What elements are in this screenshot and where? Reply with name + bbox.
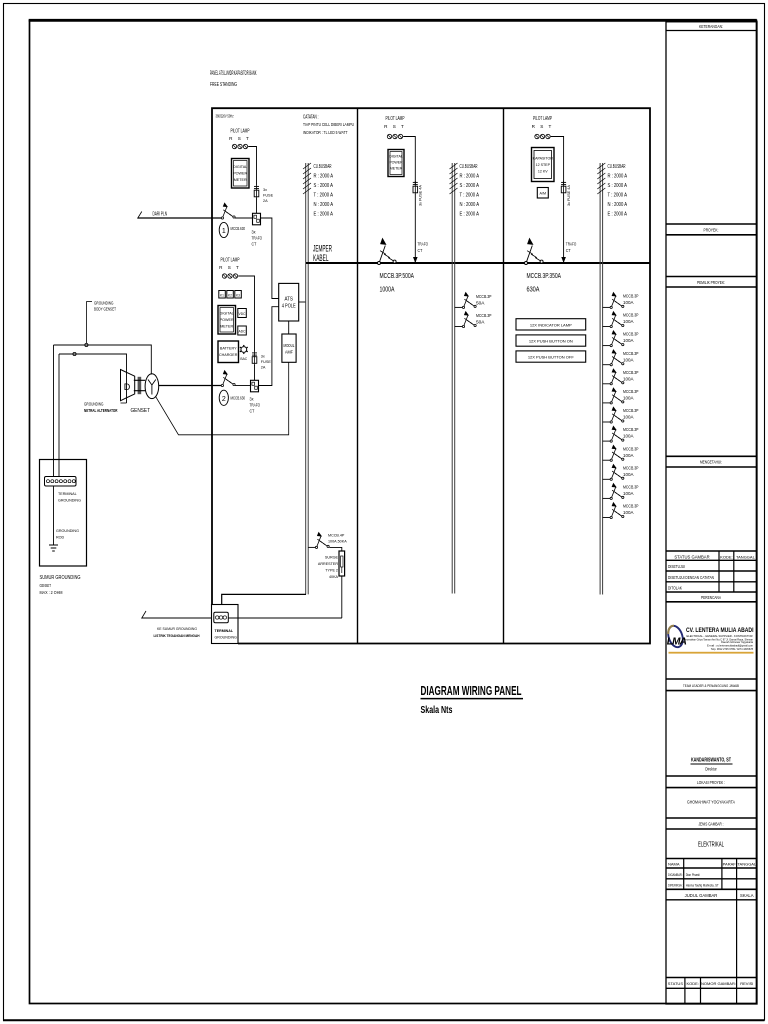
A/M selector box [537, 188, 548, 199]
svg-text:T : 2000 A: T : 2000 A [314, 192, 334, 198]
breaker MCCB.3P 100A no4 [610, 349, 624, 366]
label 100A no9 [623, 446, 639, 458]
svg-text:GHOMAHWAT YOGYAKARTA: GHOMAHWAT YOGYAKARTA [687, 800, 735, 805]
feeder stub 100A no9 [603, 459, 610, 461]
pilot lamp 2 [222, 274, 237, 278]
numbered node 1 [219, 222, 245, 237]
terminal grounding label genset [58, 492, 81, 503]
svg-text:NETRAL ALTERNATOR: NETRAL ALTERNATOR [84, 408, 118, 413]
svg-text:PILOT LAMP: PILOT LAMP [386, 116, 405, 122]
panel enclosure box [212, 108, 650, 643]
svg-text:PROYEK:: PROYEK: [704, 228, 719, 233]
breaker MCCB.3P 100A no7 [610, 406, 624, 423]
trafo CT label right [566, 241, 577, 253]
svg-text:12X PUSH BUTTON OFF: 12X PUSH BUTTON OFF [528, 355, 574, 360]
pilot lamp 4 labels [532, 116, 554, 129]
svg-text:R : 2000 A: R : 2000 A [608, 173, 628, 179]
fuse F1 [254, 185, 259, 199]
svg-text:50A: 50A [476, 320, 485, 325]
busbar left label CU.BUSBAR [314, 164, 334, 218]
svg-text:JUDUL GAMBAR: JUDUL GAMBAR [685, 893, 718, 898]
svg-text:GROUNDING: GROUNDING [56, 529, 79, 533]
genset coupling [134, 377, 145, 394]
svg-text:DIGAMBAR:: DIGAMBAR: [668, 873, 683, 877]
svg-text:GROUNDING: GROUNDING [94, 300, 114, 305]
svg-text:KABEL: KABEL [313, 253, 329, 263]
svg-text:MCCB.3P: MCCB.3P [623, 504, 639, 509]
breaker MCCB.3P.500A label [380, 271, 415, 294]
breaker MCCB.4P surge [315, 532, 329, 549]
svg-text:DARI PLN: DARI PLN [153, 211, 168, 217]
breaker MCCB.3P 100A no10 [610, 464, 624, 481]
svg-text:100A: 100A [623, 300, 634, 305]
svg-text:GENSET: GENSET [40, 583, 52, 588]
svg-text:TRAFO: TRAFO [252, 236, 263, 241]
signature name KANDARISWANTO [691, 758, 733, 772]
label 50A no1 [476, 294, 492, 306]
breaker MCCB.3P 100A no8 [610, 426, 624, 443]
breaker MCCB.3P.350A label [527, 271, 562, 294]
breaker MCCB 2 genset [221, 370, 235, 387]
genset feed wire [159, 385, 223, 387]
svg-text:CV. LENTERA MULIA ABADI: CV. LENTERA MULIA ABADI [686, 627, 754, 634]
PROYEK header band [666, 224, 757, 235]
svg-text:TYPE 2: TYPE 2 [325, 569, 338, 573]
svg-text:METER: METER [220, 325, 233, 329]
svg-text:S : 2000 A: S : 2000 A [608, 183, 628, 189]
svg-text:MCCB.630: MCCB.630 [231, 226, 246, 231]
svg-text:PARAF: PARAF [723, 862, 737, 867]
wire lamp4 down to bus [551, 137, 564, 186]
PLN arrow tick [138, 212, 142, 219]
breaker MCCB.3P 100A no1 [610, 292, 624, 309]
busbar mid hatching [450, 163, 458, 194]
jenis value ELEKTRIKAL [698, 841, 724, 848]
company logo CV LENTERA MULIA ABADI [666, 624, 754, 654]
feeder stub 100A no7 [603, 421, 610, 423]
MENGETAHUI header band [666, 456, 757, 467]
svg-text:ATS: ATS [284, 297, 293, 303]
breaker MCCB.3P 100A no9 [610, 445, 624, 462]
svg-text:DIPERIKSA:: DIPERIKSA: [668, 883, 683, 887]
svg-text:Telp. 0812 2745 6789 / 0274 43: Telp. 0812 2745 6789 / 0274 4345678 [711, 648, 754, 651]
svg-text:JENIS GAMBAR :: JENIS GAMBAR : [699, 822, 724, 827]
lokasi value box [687, 800, 735, 805]
feeder stub 100A no5 [603, 383, 610, 385]
svg-text:3x FUSE 4A: 3x FUSE 4A [567, 185, 571, 206]
svg-text:KODE:: KODE: [686, 981, 698, 986]
feeder stub 100A no3 [603, 345, 610, 347]
wire fuse3 to bus junction [414, 195, 416, 264]
svg-text:100A: 100A [623, 415, 634, 420]
svg-text:KE SUMUR GROUNDING: KE SUMUR GROUNDING [157, 627, 197, 631]
svg-text:DIAGRAM WIRING PANEL: DIAGRAM WIRING PANEL [421, 683, 522, 698]
svg-text:JEMPER: JEMPER [313, 244, 332, 254]
svg-text:BAC: BAC [240, 357, 247, 361]
ke sumur grounding wire [142, 617, 342, 619]
svg-text:3x: 3x [261, 355, 265, 359]
svg-text:100A: 100A [623, 357, 634, 362]
svg-text:100A.50KA: 100A.50KA [328, 540, 347, 544]
svg-text:MCCB.3P: MCCB.3P [623, 446, 639, 451]
svg-text:STATUS GAMBAR: STATUS GAMBAR [674, 554, 709, 559]
svg-text:N : 2000 A: N : 2000 A [314, 202, 334, 208]
ATS to AMF connector [288, 321, 290, 334]
relay K2 [227, 291, 234, 299]
svg-text:SURGE: SURGE [325, 556, 339, 560]
svg-text:100A: 100A [623, 376, 634, 381]
svg-text:D: D [124, 382, 131, 392]
svg-text:TERMINAL: TERMINAL [215, 629, 234, 633]
svg-text:MCCB.3P: MCCB.3P [623, 351, 639, 356]
svg-text:3x: 3x [263, 188, 267, 192]
label 100A no11 [623, 485, 639, 497]
svg-text:CT: CT [418, 248, 423, 253]
fuse F2 [252, 352, 257, 366]
svg-text:MCCB.3P: MCCB.3P [623, 408, 639, 413]
svg-text:AMF: AMF [285, 349, 293, 354]
breaker MCCB.3P 100A no2 [610, 311, 624, 328]
grounding bus wire 2 [59, 354, 127, 403]
feeder stub 100A no2 [603, 326, 610, 328]
svg-text:MCCB.3P: MCCB.3P [623, 370, 639, 375]
feeder stub 50A no1 [455, 306, 463, 308]
svg-text:DIGITAL: DIGITAL [220, 312, 234, 316]
kapasitor bank controller box [532, 148, 555, 182]
svg-text:A/M: A/M [540, 192, 547, 196]
section divider 2 [503, 108, 505, 643]
svg-text:VDC: VDC [239, 312, 247, 316]
panel title text [210, 70, 257, 88]
ground drop wire B [58, 354, 60, 477]
svg-text:DIGITAL: DIGITAL [233, 165, 247, 169]
wire breaker2 to CT2 [235, 385, 251, 387]
svg-text:CU.BUSBAR: CU.BUSBAR [460, 164, 478, 170]
breaker MCCB.3P 50A no2 [462, 311, 476, 328]
fuse F1 label 3x FUSE 2A [263, 188, 274, 203]
svg-text:K3: K3 [236, 294, 240, 298]
busbar mid label CU.BUSBAR [460, 164, 480, 218]
svg-text:630A: 630A [527, 285, 540, 294]
svg-text:TRAFO: TRAFO [250, 403, 261, 408]
svg-text:NAMA: NAMA [668, 862, 680, 867]
JENIS GAMBAR header band [666, 818, 757, 829]
svg-text:1: 1 [222, 228, 226, 235]
svg-text:N : 2000 A: N : 2000 A [460, 202, 480, 208]
busbar right [600, 163, 603, 595]
junction arrow right [561, 257, 566, 263]
svg-text:CHARGER: CHARGER [219, 353, 238, 357]
junction arrow mid [413, 257, 418, 263]
svg-text:100A: 100A [623, 510, 634, 515]
label 100A no7 [623, 408, 639, 420]
fuse F2 label 3x FUSE 2A [261, 355, 272, 370]
svg-text:MCCB.3P: MCCB.3P [623, 313, 639, 318]
svg-text:ROD: ROD [56, 536, 65, 540]
AMF control wire to genset [156, 362, 289, 435]
wire lamp3 down to bus [403, 137, 415, 186]
svg-text:CT: CT [250, 409, 255, 414]
svg-text:R S T: R S T [219, 265, 241, 270]
svg-text:METER: METER [234, 178, 247, 182]
digital power meter 3 [388, 150, 404, 177]
svg-text:R S T: R S T [384, 124, 406, 129]
pilot lamp 3 [387, 134, 402, 138]
LOKASI PROYEK header band [666, 776, 757, 788]
PEMILIK PROYEK header band [666, 277, 757, 288]
feeder stub 100A no11 [603, 497, 610, 499]
AMF module box [282, 334, 296, 362]
svg-text:POWER: POWER [389, 161, 403, 165]
note CATATAN [303, 114, 354, 136]
TEAM LEADER header band [666, 679, 757, 691]
breaker MCCB 1 incoming [221, 202, 235, 219]
CT 1 [253, 213, 261, 225]
svg-text:POWER: POWER [220, 318, 234, 322]
svg-text:Dian Pinasti: Dian Pinasti [686, 873, 700, 877]
panel terminal strip [214, 612, 229, 623]
svg-text:BODY GENSET: BODY GENSET [94, 307, 116, 312]
ground drop wire A [53, 345, 55, 477]
CT 2 [251, 380, 259, 392]
busbar right label CU.BUSBAR [608, 164, 628, 218]
svg-text:TERMINAL: TERMINAL [58, 492, 77, 496]
junction node body [85, 343, 88, 346]
section divider 1 [357, 108, 359, 643]
label 50A no2 [476, 313, 492, 325]
STATUS KODE NOMOR REVISI table [666, 978, 757, 1005]
genset engine trapezoid [121, 370, 135, 401]
pilot lamp 3 labels [384, 116, 406, 129]
title block outer box [666, 22, 757, 1004]
svg-text:TANGGAL: TANGGAL [736, 554, 756, 559]
busbar left hatching [303, 163, 311, 194]
PERENCANA header band [666, 595, 757, 602]
svg-text:GENSET: GENSET [131, 408, 151, 414]
svg-text:ADC: ADC [239, 330, 247, 334]
svg-text:POWER: POWER [233, 172, 247, 176]
svg-text:MCCB.3P.500A: MCCB.3P.500A [380, 271, 415, 280]
grounding rod label [56, 529, 79, 540]
svg-text:TIAP PINTU CELL DIBERI LAMPU: TIAP PINTU CELL DIBERI LAMPU [303, 122, 354, 128]
svg-text:380/220V 50Hz: 380/220V 50Hz [216, 113, 234, 119]
svg-text:50A: 50A [476, 301, 485, 306]
svg-text:KETERANGAN:: KETERANGAN: [699, 24, 723, 29]
pilot lamp 1 labels [229, 129, 251, 142]
wire fuse1 to CT1 [256, 199, 258, 214]
ke sumur arrow tick [142, 611, 147, 619]
digital power meter 1 [232, 159, 250, 189]
panel terminal grounding box [212, 605, 239, 644]
breaker MCCB.3P 100A no12 [610, 502, 624, 519]
fuse F4 [561, 181, 566, 195]
numbered node 2 [219, 390, 245, 405]
breaker MCCB.3P 100A no11 [610, 483, 624, 500]
svg-text:Hanna Taufiq Mahkota, ST: Hanna Taufiq Mahkota, ST [686, 883, 719, 887]
svg-text:PERENCANA: PERENCANA [701, 595, 722, 600]
sumur grounding labels [40, 575, 81, 595]
wire breaker to surge arrester [329, 547, 341, 551]
label JEMPER KABEL [313, 244, 332, 264]
busbar right hatching [597, 163, 605, 194]
ground symbol [49, 545, 58, 551]
svg-text:E : 2000 A: E : 2000 A [314, 211, 334, 217]
svg-text:GROUNDING: GROUNDING [84, 401, 104, 406]
svg-text:TRAFO: TRAFO [418, 241, 429, 246]
wire lamp2 to fuse2 [238, 276, 254, 352]
JUDUL GAMBAR / SKALA header band [666, 889, 757, 977]
svg-text:R S T: R S T [532, 124, 554, 129]
svg-text:LOKASI PROYEK :: LOKASI PROYEK : [697, 780, 725, 785]
svg-text:MODUL: MODUL [284, 343, 295, 348]
busbar left [306, 163, 309, 594]
svg-text:MENGETAHUI:: MENGETAHUI: [700, 460, 722, 465]
STATUS GAMBAR table [666, 551, 757, 592]
svg-text:100A: 100A [623, 472, 634, 477]
feeder stub 100A no12 [603, 517, 610, 519]
wire fuse4 to bus junction [563, 195, 565, 264]
label 100A no3 [623, 332, 639, 344]
VDC meter box [238, 309, 247, 318]
fuse F3 [413, 181, 418, 195]
svg-text:LISTRIK TEGANGAN MENGAH: LISTRIK TEGANGAN MENGAH [154, 634, 200, 638]
breaker MCCB.3P 100A no5 [610, 368, 624, 385]
svg-text:PILOT LAMP: PILOT LAMP [221, 258, 240, 264]
svg-text:CT: CT [252, 242, 257, 247]
svg-text:12 KV: 12 KV [538, 170, 548, 174]
relay K3 [235, 291, 242, 299]
svg-text:CU.BUSBAR: CU.BUSBAR [608, 164, 626, 170]
drawing title DIAGRAM WIRING PANEL [421, 683, 524, 716]
surge arrester feed stub [308, 546, 316, 548]
label 100A no5 [623, 370, 639, 382]
svg-text:K1: K1 [220, 294, 224, 298]
ATS box [279, 283, 299, 321]
svg-text:KODE:: KODE: [720, 554, 732, 559]
feeder stub 100A no6 [603, 402, 610, 404]
svg-text:100A: 100A [623, 434, 634, 439]
svg-text:DITOLAK: DITOLAK [668, 585, 682, 590]
svg-text:R S T: R S T [229, 136, 251, 141]
feeder stub 100A no8 [603, 440, 610, 442]
svg-text:FUSE: FUSE [263, 194, 274, 198]
feeder stub 100A no4 [603, 364, 610, 366]
svg-text:CATATAN :: CATATAN : [303, 114, 319, 120]
label 100A no10 [623, 465, 639, 477]
svg-text:TEAM LEADER & PENANGGUNG JAWAB: TEAM LEADER & PENANGGUNG JAWAB [683, 683, 739, 688]
svg-text:ELEKTRIKAL: ELEKTRIKAL [698, 841, 724, 848]
svg-text:DISETUJUI: DISETUJUI [668, 564, 685, 569]
svg-text:T : 2000 A: T : 2000 A [608, 192, 628, 198]
svg-text:2A: 2A [263, 199, 268, 203]
digital power meter 2 [218, 306, 236, 335]
svg-text:BATTERY: BATTERY [220, 347, 237, 351]
feeder stub 100A no1 [603, 306, 610, 308]
label 100A no1 [623, 294, 639, 306]
svg-text:METER: METER [390, 167, 403, 171]
incoming PLN wire [138, 217, 223, 219]
wire CT1 to ATS input 1 [261, 218, 279, 299]
svg-text:100A: 100A [623, 491, 634, 496]
grounding bus wire 1 [54, 345, 152, 375]
junction node neutral [73, 352, 76, 355]
svg-text:STATUS: STATUS [668, 981, 684, 986]
relay K1 [219, 291, 226, 299]
svg-text:S : 2000 A: S : 2000 A [460, 183, 480, 189]
svg-text:MCCB.3P.350A: MCCB.3P.350A [527, 271, 562, 280]
battery BAC symbol [240, 345, 248, 361]
svg-text:MCCB.3P: MCCB.3P [623, 485, 639, 490]
svg-text:SKALA: SKALA [740, 893, 754, 898]
svg-text:2: 2 [222, 396, 226, 403]
svg-text:ARRESTER: ARRESTER [318, 562, 338, 566]
svg-text:12X PUSH BUTTON ON: 12X PUSH BUTTON ON [529, 339, 573, 344]
surge arrester [339, 551, 345, 576]
svg-text:T : 2000 A: T : 2000 A [460, 192, 480, 198]
svg-text:MCCB.4P: MCCB.4P [328, 534, 345, 538]
12x push button on box [516, 335, 586, 346]
svg-text:TRAFO: TRAFO [566, 241, 577, 246]
svg-text:R : 2000 A: R : 2000 A [314, 173, 334, 179]
svg-text:NOMOR GAMBAR:: NOMOR GAMBAR: [701, 981, 736, 986]
pilot lamp 2 labels [219, 258, 241, 271]
svg-text:R : 2000 A: R : 2000 A [460, 173, 480, 179]
busbar to ground wire [222, 594, 306, 612]
wire lamp1 to fuse1 [248, 147, 256, 186]
svg-text:MCCB.3P: MCCB.3P [623, 427, 639, 432]
CT2 label 3x TRAFO CT [250, 396, 261, 413]
NAMA PARAF TANGGAL table [666, 859, 757, 890]
svg-text:PILOT LAMP: PILOT LAMP [231, 129, 250, 135]
grounding netral leader [84, 401, 127, 413]
feeder stub 50A no2 [455, 326, 463, 328]
svg-text:3x FUSE 4A: 3x FUSE 4A [419, 185, 423, 206]
outer border bottom accent [3, 1019, 765, 1021]
busbar mid [452, 163, 455, 594]
svg-text:K2: K2 [228, 294, 232, 298]
ke sumur grounding label [154, 627, 200, 638]
svg-text:FUSE: FUSE [261, 360, 272, 364]
label 100A no12 [623, 504, 639, 515]
svg-text:MCCB.3P: MCCB.3P [476, 313, 492, 318]
ADC meter box [238, 326, 247, 335]
svg-text:PANEL ATS.LVMDP.KAPASITOR BANK: PANEL ATS.LVMDP.KAPASITOR BANK [210, 70, 257, 77]
svg-text:TANGGAL: TANGGAL [737, 862, 757, 867]
svg-text:SUMUR GROUNDING: SUMUR GROUNDING [40, 575, 81, 581]
CT1 label 3x TRAFO CT [252, 229, 263, 246]
svg-text:GROUNDING: GROUNDING [58, 499, 81, 503]
svg-text:100A: 100A [623, 396, 634, 401]
breaker MCCB.3P 100A no3 [610, 330, 624, 347]
svg-text:GROUNDING: GROUNDING [215, 636, 238, 640]
svg-text:E : 2000 A: E : 2000 A [460, 211, 480, 217]
wire fuse2 to CT2 [254, 365, 256, 380]
svg-text:N : 2000 A: N : 2000 A [608, 202, 628, 208]
svg-text:INDIKATOR : TL LED 5 WATT: INDIKATOR : TL LED 5 WATT [303, 130, 348, 136]
svg-text:DISETUJUI DENGAN CATATAN: DISETUJUI DENGAN CATATAN [668, 575, 714, 580]
trafo CT label mid [418, 241, 429, 253]
sumur grounding genset box [40, 460, 87, 567]
KETERANGAN header band [666, 24, 757, 30]
svg-text:MCCB.3P: MCCB.3P [623, 294, 639, 299]
svg-text:100A: 100A [623, 338, 634, 343]
svg-text:CT: CT [566, 248, 571, 253]
label 100A no6 [623, 389, 639, 401]
svg-text:PEMILIK PROYEK:: PEMILIK PROYEK: [697, 280, 725, 285]
svg-text:KANDARISWANTO, ST: KANDARISWANTO, ST [691, 758, 731, 764]
svg-text:2A: 2A [261, 366, 266, 370]
svg-text:S : 2000 A: S : 2000 A [314, 183, 334, 189]
